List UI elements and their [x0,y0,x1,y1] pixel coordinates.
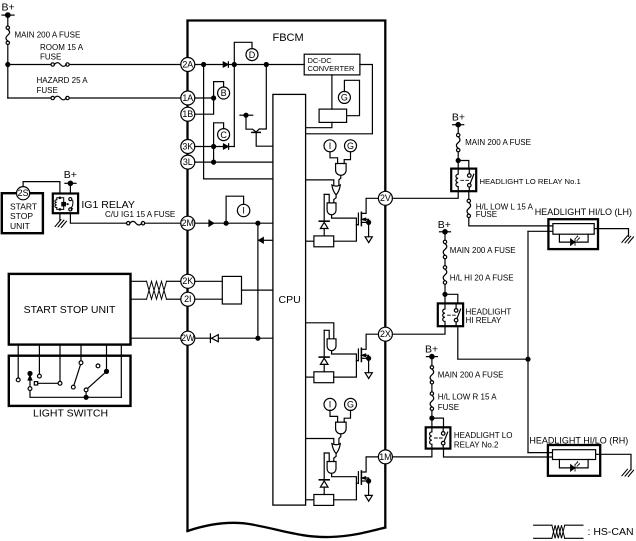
node I (driver1) [324,140,336,152]
svg-text:HEADLIGHT LO RELAY No.1: HEADLIGHT LO RELAY No.1 [480,177,581,186]
headlight LH box [548,219,598,249]
fuse MAIN 200 A (relay1) [457,133,460,136]
svg-text:2A: 2A [182,59,193,69]
connector 2K [181,274,195,288]
CAN transceiver box [222,276,241,304]
svg-text:1B: 1B [182,109,193,119]
connector 2X [378,327,392,341]
svg-text:MAIN 200 A FUSE: MAIN 200 A FUSE [465,138,531,147]
FBCM box outline with wavy bottom [188,21,386,532]
fuse MAIN 200 A (HI) [443,240,446,243]
B+ terminal (HI relay) [440,231,451,233]
ground (RH) [622,469,634,476]
node B+ branch (relay2) [430,416,434,420]
wire regulator bottom to CPU [306,122,332,127]
resistor R1 box [314,236,334,247]
wire gate2 out to gate3 [334,195,336,203]
svg-text:2K: 2K [182,276,193,286]
switch 1 fixed contact + link [34,382,37,385]
relay K3 contacts [441,432,445,436]
svg-text:MAIN 200 A FUSE: MAIN 200 A FUSE [450,246,516,255]
wire 3K-3L vertical [213,147,215,163]
relay K1 contacts [468,174,472,178]
wire 2K row [131,280,147,282]
wire 2A row inside FBCM [195,64,304,66]
wire RH to ground [596,454,631,469]
wire bus [30,391,121,398]
fuse H/L LOW L 15 A [467,199,470,202]
CPU box [273,94,306,505]
B+ terminal (relay2) [426,356,437,358]
svg-text:CPU: CPU [279,294,301,306]
fuse HAZARD 25 A [51,96,54,99]
wire CPU to R2 [306,376,314,378]
wire ROOM fuse row to 2A [8,64,51,66]
relay K1 link dashes [461,179,469,181]
wire HI feed into RH [528,452,553,454]
wire sw v2 [38,345,40,375]
wire K3 coil to 1M [392,449,432,457]
svg-text:B: B [221,88,227,98]
resistor R2 box [314,372,334,383]
wire 2I to CAN box [195,298,223,300]
switch blade 1 (vertical) [28,372,32,376]
fuse H/L HI 20 A [443,266,446,269]
wire CPU to gate6 [306,439,334,445]
switch 3 fixed contact [96,364,100,368]
svg-text:B+: B+ [64,169,77,181]
svg-text:I: I [329,400,332,410]
svg-text:FUSE: FUSE [438,403,459,412]
resistor box under DC-DC [319,109,347,122]
connector 1M [378,450,392,464]
svg-text:2X: 2X [380,329,391,339]
gate U1 (AND) [336,164,347,176]
legend twisted pair [552,525,565,538]
wire zener feed vertical [323,330,325,357]
MOSFET Q2 [357,213,359,225]
wire sw v6 to bus [120,345,122,398]
transistor Q1 [246,115,256,132]
arrow on 2M row [209,220,214,226]
connector 1B [181,107,195,121]
connector 2M [181,216,195,230]
wire sw v5 [106,345,108,372]
svg-text:RELAY No.2: RELAY No.2 [454,441,499,450]
node 2A diode junction [232,63,236,67]
svg-text:START: START [10,201,37,211]
svg-text:2V: 2V [380,193,391,203]
wire bracket to I [226,196,244,223]
wire R1 to MOSFET gate [334,225,357,242]
svg-text:2W: 2W [181,333,195,343]
start stop unit (small) box [2,193,43,233]
wire K2 coil to 2X [392,326,445,334]
wire sw v3 [59,345,61,382]
gate U7 (AND) [327,462,336,474]
svg-text:MAIN 200 A FUSE: MAIN 200 A FUSE [15,31,81,40]
svg-text:H/L LOW R 15 A: H/L LOW R 15 A [438,393,498,402]
bulb loop RH [559,460,588,468]
wire I to gate1 [330,152,338,164]
svg-text:H/L HI 20 A FUSE: H/L HI 20 A FUSE [450,273,514,282]
relay K3 coil [430,427,432,448]
svg-text:ROOM 15 A: ROOM 15 A [40,43,84,52]
connector 3L [181,155,195,169]
svg-text:C/U IG1 15 A FUSE: C/U IG1 15 A FUSE [105,210,175,219]
wire zener feed vertical [323,453,325,480]
wire IG1 contact to fuse [70,213,126,223]
svg-text:LIGHT SWITCH: LIGHT SWITCH [33,408,108,420]
ground (driver1) [368,222,370,236]
wire K2 contact to HI node [458,326,528,359]
DC-DC converter box [304,54,360,75]
wire bracket to D [234,42,252,64]
ground (IG1) [55,220,66,228]
fuse C/U IG1 15A [127,222,130,225]
node 1A-B junction [212,96,216,100]
wire DC-DC bottom to regulator [331,75,333,109]
wire HI feed into LH [528,230,553,232]
relay K3 box [426,427,451,448]
wire fuse to LH headlight [469,218,553,226]
zener diode D3 [319,479,329,481]
svg-text:3K: 3K [182,141,193,151]
wire LH to ground [594,229,628,237]
node: B+ bus junction [6,63,10,67]
node B [218,87,230,99]
wire IG1 coil to ground [59,213,61,220]
twisted pair (HS-CAN) symbol [147,281,167,299]
relay K2 box [438,303,463,326]
fuse MAIN 200 A (vertical) [6,26,9,29]
diode 2W (pointing left) [209,334,211,343]
svg-text:I: I [329,141,332,151]
relay IG1 rect + arrow [62,203,66,206]
svg-text:UNIT: UNIT [10,221,30,231]
svg-text:2M: 2M [182,218,194,228]
connector 3K [181,140,195,154]
svg-text:G: G [347,400,354,410]
relay K2 link dashes [448,314,456,316]
wire 2W row [131,337,181,339]
wire 2I row [131,298,147,300]
MOSFET Q4 [357,472,359,484]
gate U3 (AND) [327,203,336,215]
svg-text:HAZARD 25 A: HAZARD 25 A [37,76,89,85]
B+ terminal (IG1) [65,182,76,184]
wire CPU to R3 [306,499,314,501]
node G (driver1) [345,140,357,152]
wire I to gate1 (driver3) [330,410,338,422]
node 2A-v1 junction [202,63,206,67]
wire gate3 out to MOSFET gate [332,215,359,225]
svg-text:B+: B+ [2,2,15,14]
fuse ROOM 15 A [51,63,54,66]
node I (2M) [237,204,249,216]
MOSFET Q3 [357,349,359,361]
wire 1B row up to 1A junction [195,98,214,114]
relay IG1 box [53,194,78,214]
zener diode D1 [319,220,329,222]
node 2M branch junction [256,221,260,225]
wire 2S to IG1 relay coil [23,182,60,194]
node 2W junction [256,336,260,340]
gate U6 (OR) [332,444,340,454]
svg-text:FBCM: FBCM [273,32,304,44]
light switch box [9,356,131,406]
node G (driver3) [345,398,357,410]
svg-text:FUSE: FUSE [37,86,58,95]
wire 3K row [195,146,223,148]
svg-text:3L: 3L [183,157,193,167]
svg-text:HEADLIGHT LO: HEADLIGHT LO [454,431,513,440]
node D [246,49,258,61]
wire bracket to G (DC-DC) [344,80,359,115]
ground (LH) [622,236,634,243]
wire HI distribution vertical [527,231,529,452]
node G (DC-DC) [338,91,350,103]
bulb RH (LED symbol) [571,465,575,471]
bulb loop LH [559,234,588,242]
wire relay1 coil to 2V [392,191,458,198]
B+ terminal (relay1) [453,124,464,126]
node B+ branch (relay1) [456,159,460,163]
wire 3L row to CPU [195,161,273,163]
wire gate out to gate6 [339,434,341,444]
wire relay1 contact to fuse [468,191,470,199]
diode after 2A [223,62,228,67]
node 3K junction [212,145,216,149]
node 2A transistor-collector junction [264,63,268,67]
wire gate6 out to gate7 [334,454,336,462]
wire 1A row [195,97,214,99]
gate U4 (AND) [327,339,336,351]
relay IG1 coil loop [57,198,64,210]
node 2M-I junction [224,221,228,225]
svg-text:C: C [220,130,227,140]
node I (driver3) [324,398,336,410]
wire G to gate1 [344,152,350,164]
relay K2 coil [443,303,445,326]
relay K1 coil [456,169,458,192]
START STOP UNIT box [9,274,131,345]
svg-text:: HS-CAN: : HS-CAN [588,526,634,538]
relay IG1 contacts [69,198,72,201]
svg-text:HI RELAY: HI RELAY [466,316,503,325]
B+ top-left terminal [2,14,14,16]
connector 2A [181,58,195,72]
headlight RH box [548,445,600,476]
wire 2M row to CPU [195,222,273,224]
wire HAZARD fuse row to 1A [8,97,51,99]
gate U5 (AND) [336,422,347,434]
relay K2 contacts [454,309,458,313]
relay K1 box [451,169,476,192]
zener diode D2 [319,356,329,358]
connector 1A [181,91,195,105]
svg-text:G: G [341,93,348,103]
fuse H/L LOW R 15 A [430,392,433,395]
relay K3 link dashes [435,437,443,439]
connector 2W [181,331,195,345]
svg-text:FUSE: FUSE [476,210,497,219]
wire 2K to CAN box [195,280,223,282]
svg-text:B+: B+ [452,112,465,124]
wire bracket to C [214,123,224,147]
ground (driver3) [368,481,370,495]
wire CPU to gate (driver2) [306,323,334,339]
gate U2 (OR) [332,185,340,195]
svg-text:FUSE: FUSE [40,53,61,62]
wire gate1 out to gate2 [339,175,341,185]
wire CPU to R1 [306,240,314,242]
svg-text:I: I [242,206,245,216]
switch blade 2 [71,385,75,389]
svg-text:1M: 1M [379,452,391,462]
svg-text:CONVERTER: CONVERTER [308,64,356,73]
node 3L junction [212,160,216,164]
wire bracket to gate left input [324,330,329,339]
svg-text:IG1 RELAY: IG1 RELAY [81,199,134,211]
svg-text:START STOP UNIT: START STOP UNIT [24,304,116,316]
wire R2 to MOSFET gate [334,361,357,378]
ground (driver2) [368,358,370,372]
connector 2I [181,292,195,306]
wire CAN box to CPU [242,289,273,291]
diode after 3K [224,144,229,149]
wire G to gate1 (driver3) [344,410,350,422]
wire gate out to MOSFET gate [332,351,359,361]
wire v3 2A-to-3K vertical [233,65,235,147]
transistor Q1 base stub [240,114,253,116]
svg-text:MAIN 200 A FUSE: MAIN 200 A FUSE [438,370,504,379]
wire bracket to B [214,82,224,98]
wire bracket to gate3 left input [324,194,329,203]
svg-text:1A: 1A [182,93,193,103]
bulb LH (LED symbol) [571,239,575,245]
node B+ branch (HI) [443,292,447,296]
connector 2V [378,191,392,205]
svg-text:G: G [347,141,354,151]
node HI junction [526,357,530,361]
wire v4 down to 2W row [257,223,259,338]
wire sw v4 [80,345,82,361]
wire sw v1 [17,345,19,378]
wire gate7 out to MOSFET gate [332,474,359,484]
svg-text:2I: 2I [184,294,191,304]
connector 2S [17,187,30,200]
fuse MAIN 200 A (relay2) [430,366,433,369]
svg-text:2S: 2S [18,188,29,198]
wire CPU arrow feed [261,239,273,241]
switch blade 3 [105,369,109,373]
wire v1 bus to CPU [204,65,273,179]
relay IG1 coil bumps [55,200,57,208]
svg-text:STOP: STOP [10,211,33,221]
svg-text:D: D [249,50,256,60]
wire DC-DC right to CPU [306,65,373,134]
svg-text:B+: B+ [425,344,438,356]
wire K3 contact to RH headlight [444,449,553,457]
svg-text:HEADLIGHT HI/LO (LH): HEADLIGHT HI/LO (LH) [535,207,632,217]
resistor R3 box [314,495,334,506]
wire zener feed vertical [323,194,325,221]
wire R3 to MOSFET gate [334,483,357,500]
wire CPU to gate2 [306,180,334,186]
wire bracket to gate7 left input [324,453,329,462]
legend wires [534,524,552,526]
node C [218,129,230,141]
